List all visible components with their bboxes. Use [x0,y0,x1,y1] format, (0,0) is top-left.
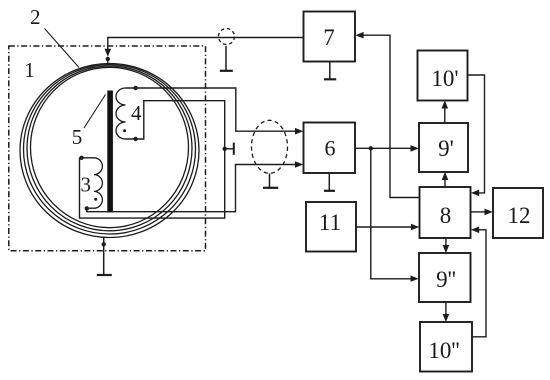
arrow into block 9' left [411,145,419,152]
svg-text:5: 5 [72,125,83,149]
block 9' [419,123,468,172]
node dot at coil 2 feed [106,57,110,61]
wire block 8 down to block 9'' [445,238,447,246]
arrow into block 8 right lower [471,227,479,234]
probe tap node dot [223,147,227,151]
wire junction down to block 9'' [371,148,412,278]
leader line for label 2 [45,29,80,68]
probe tap plate bar [233,143,235,155]
wire inductor 3 bottom to block 6 lower input [87,165,296,212]
coil 2 (multi-turn loop, turn a) [20,64,199,238]
wire block 6 output to block 9' [355,147,412,149]
arrow into block 7 right [355,32,363,39]
coil 2 turn d [31,67,189,227]
arrow into block 10' bottom [442,100,449,108]
wire block 8 to block 12 [471,211,487,213]
arrow into block 10'' top [443,314,450,322]
coil 2 turn c [27,66,192,231]
arrow into block 8 right upper [471,190,479,197]
arrow into block 9' bottom [442,172,449,180]
inductor 4 (bumps) [116,88,126,139]
ground under block 7 [329,62,331,79]
probe tap stub [225,148,233,150]
dash-dot enclosure box 1 [9,46,206,251]
wire stub dot to coil top [107,59,109,65]
ground under dashed ellipse [269,174,271,188]
winding-sense dot of inductor 3 [94,198,97,201]
ground under coil 2 bottom [103,237,105,275]
svg-text:11: 11 [319,210,341,235]
block 12 [493,188,543,238]
svg-text:1: 1 [24,58,35,82]
leader line for label 5 [84,95,106,129]
arrow into coil 2 top [105,49,112,57]
svg-text:10'': 10'' [428,338,459,363]
svg-text:8: 8 [440,203,452,228]
wire feed from block 7 to coil 2 top [108,38,304,51]
block 10'' [420,322,472,372]
svg-text:4: 4 [131,101,142,125]
dashed matching ellipse before block 6 [252,120,288,173]
winding-sense dot of inductor 4 [123,129,126,132]
svg-text:12: 12 [508,203,531,228]
wire block 9' up to block 10' [444,107,446,123]
block 8 [420,187,471,238]
junction dot on block 6 output [369,146,373,150]
node dot inductor 3 top terminal [79,156,83,160]
node dot inductor 4 bottom terminal [133,137,137,141]
svg-text:6: 6 [325,136,336,161]
wire inductor 3 top lead [80,157,95,159]
block 11 [306,202,356,252]
dashed probe circle on feed wire [219,29,235,45]
wire block 11 to block 8 [356,226,413,228]
arrow into block 6 upper input [295,128,303,135]
coil 2 turn b [24,65,196,234]
arrow into block 6 lower input [295,161,303,168]
wire inductor 4 bottom around to inductor 3 top [80,101,225,218]
wire block 10'' to block 8 right bottom [472,230,486,337]
arrow into block 9'' left [411,276,419,282]
inductor 3 (bumps) [94,158,102,208]
arrow into block 8 left [411,224,419,231]
node dot inductor 3 bottom terminal [85,206,89,210]
svg-text:2: 2 [30,5,41,29]
node dot inductor 4 top terminal [133,86,137,90]
wire inductor 4 top to block 6 upper input [126,88,297,131]
block 7 [304,12,356,62]
svg-text:9': 9' [438,136,454,161]
ground under block 6 [328,173,330,190]
block 9'' [419,253,471,302]
ground under dashed probe circle [225,46,227,71]
wire block 9'' down to block 10'' [445,302,447,315]
block 6 [304,123,356,174]
arrow into block 9'' top [443,245,450,253]
electrode bar 5 [107,91,113,213]
arrow into block 12 left [485,209,493,216]
svg-text:10': 10' [431,66,458,91]
block 10' [418,51,468,101]
svg-text:7: 7 [323,25,335,50]
wire block 8 to block 7 [362,35,420,197]
svg-text:3: 3 [81,173,92,197]
wire block 10' to block 8 right top [468,75,485,193]
wire block 8 up to block 9' [444,179,446,187]
svg-text:9'': 9'' [436,267,456,292]
node dot on coil ground stem [102,242,106,246]
